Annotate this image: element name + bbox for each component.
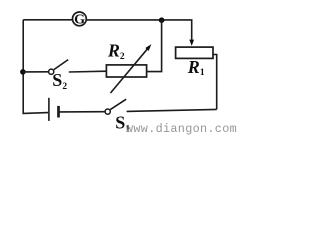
wire bottom right xyxy=(127,109,217,111)
resistor R2 xyxy=(106,65,146,77)
wire S2 to R2 xyxy=(69,70,107,73)
wire battery to S1 xyxy=(60,111,105,113)
node junction dot top xyxy=(159,17,165,23)
battery cell xyxy=(49,98,59,121)
wire vertical from top dot down to R2 branch xyxy=(147,20,162,71)
galvanometer G xyxy=(73,12,87,28)
wire arrow down to R1 slider xyxy=(189,20,194,46)
arrow diagonal of rheostat R2 xyxy=(111,44,152,93)
wire R1 right exit xyxy=(213,55,217,110)
svg-text:G: G xyxy=(74,13,85,28)
svg-text:www.diangon.com: www.diangon.com xyxy=(126,122,237,136)
wire bottom left xyxy=(23,112,48,115)
switch S1 xyxy=(105,99,126,114)
wire left dot to S2 xyxy=(23,71,49,73)
wire top right of G to corner xyxy=(86,19,192,21)
switch S2 xyxy=(49,60,69,75)
wire top left xyxy=(23,19,72,21)
wire left vertical xyxy=(22,20,24,114)
node junction dot left xyxy=(20,69,26,75)
resistor R1 xyxy=(176,47,213,58)
